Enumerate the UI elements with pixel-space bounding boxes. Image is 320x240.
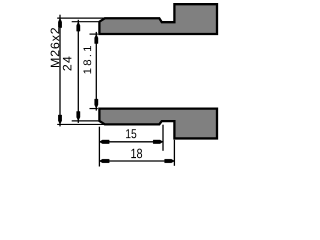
threaded gland body: upper half-section <box>99 4 217 34</box>
dimension line 18 <box>99 160 174 162</box>
18 right arrowhead <box>165 159 175 163</box>
label 18 <box>131 149 142 159</box>
dia 18.1 extension stub, bottom <box>90 108 98 110</box>
left vertical extension line for 15/18 dims <box>98 127 100 167</box>
label 24 <box>63 57 72 71</box>
18 left arrowhead <box>99 159 109 163</box>
dia 24 extension line, bottom <box>72 120 99 122</box>
15 right arrowhead <box>153 140 163 144</box>
M26x2 top arrowhead <box>58 18 61 27</box>
thread crest extension line, bottom (M26x2 reference) <box>57 123 104 125</box>
threaded gland body: lower half-section <box>99 109 217 139</box>
dia 18.1 extension stub, top <box>90 33 98 35</box>
M26x2 bottom arrowhead <box>58 115 61 124</box>
dia 18.1 dimension line <box>95 32 97 111</box>
thread crest extension line, top (M26x2 reference) <box>57 17 104 19</box>
right vertical extension line for 15 dim <box>162 125 164 151</box>
dia 24 extension line, top <box>72 21 99 23</box>
dia 24 bottom arrowhead <box>77 111 80 120</box>
dia 18.1 bottom arrowhead <box>95 99 98 108</box>
dimension line 15 <box>99 141 163 143</box>
15 left arrowhead <box>99 140 109 144</box>
label 18.1 <box>83 46 91 74</box>
dia 24 top arrowhead <box>77 22 80 31</box>
dia 24 dimension line <box>77 20 79 123</box>
right vertical extension line for 18 dim <box>173 140 175 166</box>
dia 18.1 top arrowhead <box>95 34 98 43</box>
label M26x2 <box>51 28 60 67</box>
M26x2 dimension line <box>59 15 61 127</box>
label 15 <box>126 129 136 138</box>
